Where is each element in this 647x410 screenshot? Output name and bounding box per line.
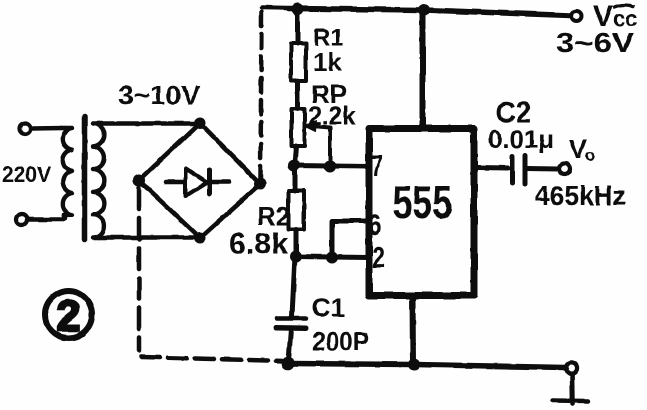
- svg-text:220V: 220V: [2, 162, 51, 187]
- svg-text:7: 7: [371, 148, 383, 183]
- svg-text:465kHz: 465kHz: [535, 180, 626, 211]
- svg-text:3~6V: 3~6V: [556, 27, 634, 58]
- svg-text:200P: 200P: [312, 327, 369, 357]
- svg-text:6: 6: [368, 207, 381, 242]
- svg-text:2: 2: [372, 242, 385, 275]
- svg-text:0.01μ: 0.01μ: [488, 126, 554, 154]
- svg-text:C2: C2: [496, 97, 531, 130]
- svg-text:1k: 1k: [313, 47, 342, 77]
- svg-text:3~10V: 3~10V: [118, 80, 201, 110]
- svg-text:o: o: [585, 146, 595, 165]
- svg-text:2: 2: [57, 293, 81, 341]
- svg-text:R2: R2: [257, 201, 290, 231]
- svg-text:2.2k: 2.2k: [308, 101, 357, 131]
- svg-text:6.8k: 6.8k: [229, 228, 288, 261]
- svg-text:555: 555: [393, 176, 453, 228]
- svg-text:C1: C1: [312, 293, 345, 323]
